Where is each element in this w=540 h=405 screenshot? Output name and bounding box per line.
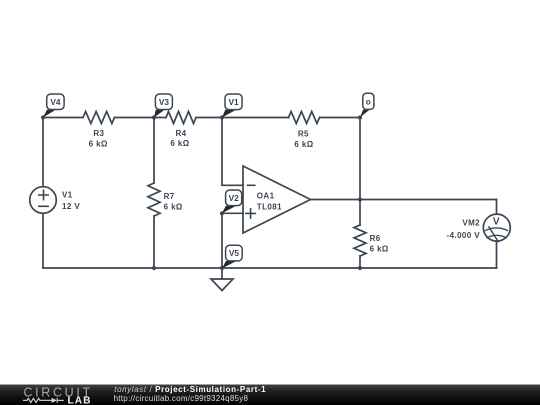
resistor R6 [354, 225, 366, 256]
op-amp plus input symbol [246, 209, 255, 218]
node label V1 [222, 94, 242, 118]
wire top: R3 to V3 node [115, 117, 167, 119]
svg-text:-4.000 V: -4.000 V [447, 231, 481, 240]
footer bar [0, 385, 540, 405]
svg-text:LAB: LAB [68, 396, 92, 405]
wire output junction to R6 [359, 200, 361, 226]
wire top: V4 node to R3 [43, 117, 83, 119]
svg-text:R5: R5 [298, 130, 309, 139]
wire R6 to bottom [359, 256, 361, 268]
op-amp minus input symbol [248, 184, 255, 186]
svg-text:R3: R3 [93, 129, 104, 138]
node dot R6 top [358, 197, 362, 201]
svg-text:R4: R4 [175, 129, 186, 138]
svg-text:V5: V5 [229, 248, 240, 258]
node dot V4 [41, 115, 45, 119]
wire meter top lead [496, 200, 498, 215]
svg-text:tonylast / Project-Simulation-: tonylast / Project-Simulation-Part-1 [114, 385, 266, 394]
svg-text:6 kΩ: 6 kΩ [170, 139, 189, 148]
voltmeter VM2 needle [489, 227, 498, 242]
wire V1 node down to op-amp minus input [222, 118, 243, 186]
wire left rail lower: V1 source to bottom wire [42, 213, 44, 268]
svg-text:6 kΩ: 6 kΩ [294, 140, 313, 149]
node dot o [358, 115, 362, 119]
wire meter bottom lead [496, 241, 498, 268]
svg-text:V1: V1 [229, 97, 240, 107]
node dot V2 [220, 211, 224, 215]
svg-text:V1: V1 [62, 191, 73, 200]
wire V3 rail upper [153, 118, 155, 184]
V1 plus sign [39, 190, 48, 199]
node dot V3 [152, 115, 156, 119]
wire V3 rail lower [153, 216, 155, 268]
node dot R7 bottom [152, 266, 156, 270]
voltmeter VM2 gauge lower arc [487, 235, 506, 237]
svg-text:6 kΩ: 6 kΩ [164, 202, 183, 211]
node dot R6 bottom [358, 266, 362, 270]
svg-text:6 kΩ: 6 kΩ [89, 139, 108, 148]
node label V5 [222, 245, 242, 268]
svg-text:R6: R6 [370, 234, 381, 243]
voltmeter VM2 gauge upper arc [485, 228, 507, 231]
wire op-amp output [311, 199, 497, 201]
wire V2 node down to V5 node [221, 213, 223, 268]
svg-text:12 V: 12 V [62, 202, 80, 211]
voltage source V1 circle [30, 187, 57, 214]
wire bottom [43, 267, 497, 269]
svg-text:6 kΩ: 6 kΩ [370, 244, 389, 253]
resistor R3 [83, 112, 115, 124]
node label V3 [154, 94, 172, 118]
V1 minus sign [39, 205, 48, 207]
resistor R4 [166, 112, 196, 124]
svg-text:V4: V4 [50, 97, 61, 107]
node label o [360, 93, 374, 117]
wire V2 node to op-amp plus input [222, 212, 243, 214]
op-amp OA1 triangle [243, 166, 311, 233]
svg-text:o: o [366, 96, 371, 106]
ground stem [221, 268, 223, 279]
svg-text:OA1: OA1 [257, 192, 275, 201]
wire top: R4 to R5 [196, 117, 289, 119]
node label V4 [43, 94, 64, 118]
node dot V5 [220, 266, 224, 270]
voltmeter VM2 circle [483, 214, 510, 241]
wire o node down to output junction [359, 118, 361, 200]
logo resistor-diode glyph [23, 398, 64, 403]
svg-text:http://circuitlab.com/c99t9324: http://circuitlab.com/c99t9324q85y8 [114, 394, 249, 403]
resistor R5 [289, 112, 320, 124]
node dot V1 [220, 115, 224, 119]
svg-text:V: V [493, 216, 500, 227]
wire top: R5 to node o [320, 117, 361, 119]
svg-text:VM2: VM2 [462, 218, 480, 227]
svg-text:V3: V3 [159, 97, 170, 107]
node label V2 [222, 190, 242, 213]
logo diode triangle [52, 398, 57, 403]
wire left rail upper: V4 node down to V1 source [42, 118, 44, 187]
svg-text:R7: R7 [164, 192, 175, 201]
svg-text:TL081: TL081 [257, 202, 282, 211]
ground symbol [211, 279, 233, 291]
resistor R7 [148, 183, 160, 216]
svg-text:V2: V2 [229, 193, 240, 203]
